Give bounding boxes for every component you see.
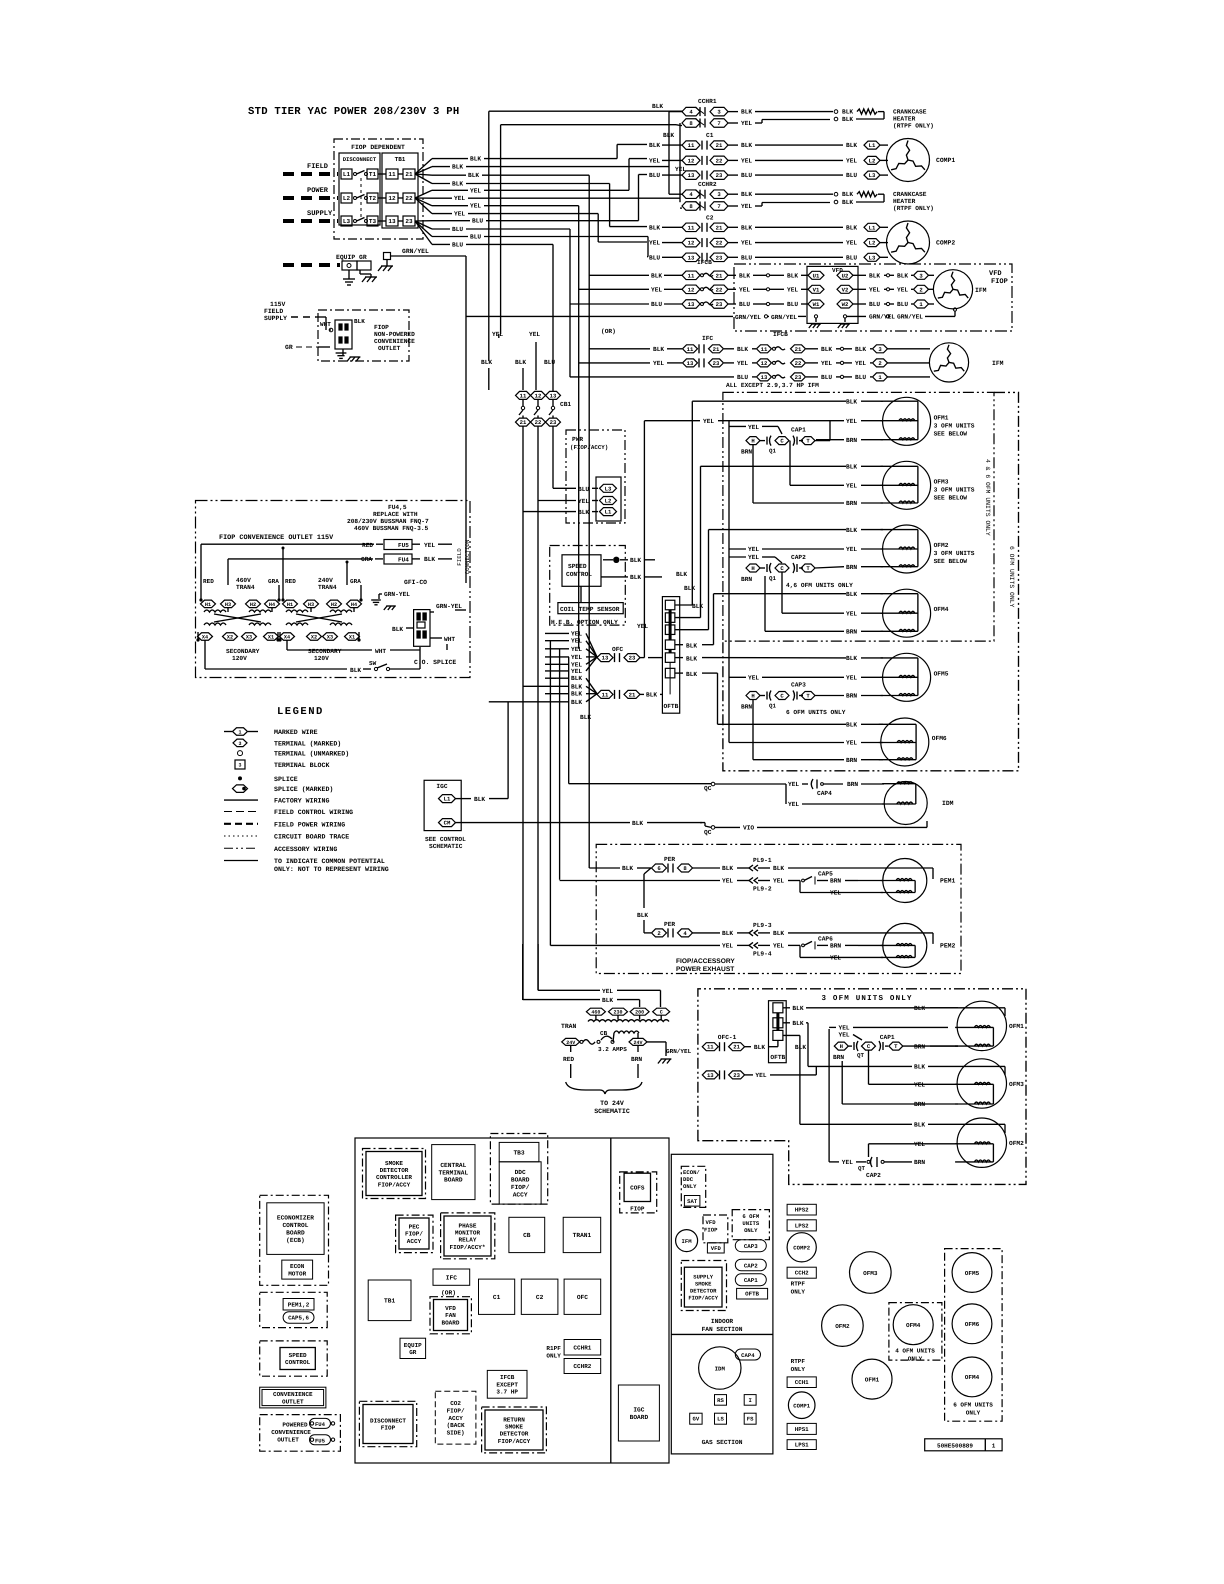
svg-text:YEL: YEL bbox=[846, 240, 857, 247]
svg-text:1: 1 bbox=[238, 730, 241, 736]
terminal strip OFTB 2 bbox=[769, 1001, 787, 1063]
svg-text:FIOP/ACCY: FIOP/ACCY bbox=[378, 1181, 411, 1188]
svg-text:BLU: BLU bbox=[544, 359, 555, 366]
svg-text:21: 21 bbox=[733, 1044, 740, 1051]
svg-text:YEL: YEL bbox=[529, 331, 540, 338]
svg-text:21: 21 bbox=[716, 272, 723, 279]
svg-text:QT: QT bbox=[857, 1052, 864, 1059]
svg-text:BLK: BLK bbox=[676, 571, 687, 578]
svg-text:SEE BELOW: SEE BELOW bbox=[934, 558, 968, 565]
TB1 terminals 12-22 bbox=[386, 193, 398, 203]
terminal QC 2 bbox=[711, 826, 715, 830]
svg-text:COMP2: COMP2 bbox=[793, 1245, 810, 1252]
terminal block TB3 bbox=[499, 1142, 539, 1161]
svg-text:SEE CONTROL: SEE CONTROL bbox=[425, 836, 466, 843]
svg-text:YEL: YEL bbox=[571, 638, 582, 645]
CAP2 oval layout bbox=[735, 1259, 766, 1271]
FS box bbox=[744, 1413, 756, 1424]
svg-text:PL9-2: PL9-2 bbox=[753, 886, 772, 893]
svg-text:FIOP/: FIOP/ bbox=[511, 1184, 530, 1191]
svg-text:(RTPF ONLY): (RTPF ONLY) bbox=[893, 205, 934, 212]
svg-text:IFCB: IFCB bbox=[773, 331, 788, 338]
svg-text:ONLY: ONLY bbox=[546, 1353, 561, 1360]
svg-text:ONLY: ONLY bbox=[744, 1227, 758, 1234]
svg-text:BLK: BLK bbox=[795, 1044, 806, 1051]
svg-text:1: 1 bbox=[878, 374, 882, 381]
svg-text:FIOP/ACCY*: FIOP/ACCY* bbox=[449, 1244, 485, 1251]
svg-text:BLK: BLK bbox=[354, 318, 365, 325]
svg-text:GR: GR bbox=[409, 1349, 417, 1356]
4 and 6 OFM units accessory box bbox=[723, 392, 994, 641]
svg-text:C1: C1 bbox=[706, 132, 714, 139]
wire BLK to TRAN bbox=[522, 944, 524, 1000]
economizer control board box bbox=[260, 1195, 329, 1285]
svg-text:GFI-CO: GFI-CO bbox=[404, 579, 427, 586]
svg-text:CCH1: CCH1 bbox=[795, 1379, 809, 1386]
svg-text:460V: 460V bbox=[236, 577, 251, 584]
svg-text:13: 13 bbox=[687, 360, 694, 367]
svg-text:QC: QC bbox=[704, 829, 712, 836]
svg-text:H.E.B. OPTION ONLY: H.E.B. OPTION ONLY bbox=[551, 619, 618, 626]
svg-text:IFM: IFM bbox=[992, 360, 1004, 367]
svg-text:FS: FS bbox=[747, 1416, 754, 1423]
svg-text:L2: L2 bbox=[343, 195, 351, 202]
svg-text:12: 12 bbox=[535, 392, 542, 399]
svg-text:YEL: YEL bbox=[741, 203, 752, 210]
svg-text:H4: H4 bbox=[351, 602, 357, 608]
svg-text:23: 23 bbox=[550, 419, 557, 426]
svg-text:12: 12 bbox=[761, 360, 768, 367]
svg-text:YEL: YEL bbox=[739, 286, 750, 293]
legend TERMINAL (UNMARKED) bbox=[238, 751, 243, 756]
svg-text:H3: H3 bbox=[308, 602, 314, 608]
drawing number block bbox=[925, 1439, 1002, 1451]
svg-text:BLU: BLU bbox=[897, 301, 908, 308]
svg-text:CONTROL: CONTROL bbox=[566, 571, 592, 578]
svg-text:ONLY: ONLY bbox=[791, 1288, 806, 1295]
svg-text:CENTRAL: CENTRAL bbox=[440, 1162, 466, 1169]
svg-text:T: T bbox=[806, 565, 810, 572]
svg-text:13: 13 bbox=[688, 254, 695, 261]
svg-text:OUTLET: OUTLET bbox=[277, 1436, 299, 1443]
svg-text:BLK: BLK bbox=[652, 103, 663, 110]
svg-text:BRN: BRN bbox=[847, 781, 858, 788]
CAP5,6 oval bbox=[283, 1312, 314, 1324]
svg-text:OFM4: OFM4 bbox=[906, 1322, 921, 1329]
wire BLK OFM6 bbox=[718, 723, 847, 725]
svg-text:BLK: BLK bbox=[842, 109, 853, 116]
wire C2 feed BLU bbox=[647, 256, 648, 258]
transformer TRAN primary terminals bbox=[586, 1008, 605, 1015]
svg-text:ECON: ECON bbox=[290, 1263, 305, 1270]
wire YEL bus inside OFM box bbox=[728, 421, 730, 743]
fan motor OFM3 (3ofm) bbox=[957, 1059, 1006, 1108]
svg-text:BLK: BLK bbox=[470, 156, 481, 163]
svg-text:YEL: YEL bbox=[649, 157, 660, 164]
svg-text:21: 21 bbox=[520, 419, 527, 426]
OFM4b circle layout bbox=[952, 1357, 992, 1397]
svg-text:GRN/YEL: GRN/YEL bbox=[771, 314, 797, 321]
svg-text:SMOKE: SMOKE bbox=[385, 1160, 403, 1167]
svg-text:T1: T1 bbox=[369, 171, 377, 178]
wire GRA riser bbox=[227, 559, 229, 585]
svg-text:Q1: Q1 bbox=[769, 703, 776, 710]
HPS2 box bbox=[787, 1204, 816, 1215]
svg-text:BLU: BLU bbox=[651, 301, 662, 308]
breaker IFCB fan pole 13-23 bbox=[757, 373, 772, 381]
svg-text:23: 23 bbox=[629, 655, 636, 662]
svg-text:OFC: OFC bbox=[612, 646, 623, 653]
svg-text:FIOP/ACCY: FIOP/ACCY bbox=[498, 1438, 531, 1445]
svg-text:BLK: BLK bbox=[914, 1005, 925, 1012]
svg-text:V1: V1 bbox=[813, 286, 820, 293]
svg-text:TRAN: TRAN bbox=[561, 1023, 577, 1030]
FIOP non-powered convenience outlet box bbox=[318, 310, 409, 361]
svg-text:7: 7 bbox=[717, 203, 720, 210]
svg-text:BLK: BLK bbox=[686, 642, 697, 649]
svg-text:23: 23 bbox=[716, 301, 723, 308]
svg-text:GAS SECTION: GAS SECTION bbox=[702, 1439, 743, 1446]
svg-text:CB: CB bbox=[523, 1232, 531, 1239]
svg-text:H: H bbox=[751, 693, 754, 700]
svg-text:FIOP/: FIOP/ bbox=[405, 1231, 423, 1238]
svg-text:6: 6 bbox=[657, 865, 661, 872]
svg-text:C: C bbox=[867, 1043, 871, 1050]
svg-text:PHASE: PHASE bbox=[458, 1222, 476, 1229]
PWR terminal box bbox=[596, 477, 621, 521]
wire BLK OFM2 bbox=[709, 529, 847, 531]
svg-text:BLU: BLU bbox=[855, 374, 866, 381]
svg-text:13: 13 bbox=[602, 655, 609, 662]
svg-text:HEATER: HEATER bbox=[893, 198, 916, 205]
svg-text:IDM: IDM bbox=[715, 1366, 726, 1373]
svg-text:FIOP CONVENIENCE OUTLET 115V: FIOP CONVENIENCE OUTLET 115V bbox=[219, 534, 334, 542]
svg-text:SUPPLY: SUPPLY bbox=[307, 210, 333, 218]
svg-text:GRA: GRA bbox=[350, 578, 361, 585]
VFD terminal U2 bbox=[837, 271, 853, 279]
svg-text:BLK: BLK bbox=[622, 865, 633, 872]
svg-text:200: 200 bbox=[635, 1010, 644, 1016]
svg-text:BLK: BLK bbox=[869, 272, 880, 279]
svg-text:C: C bbox=[780, 438, 784, 445]
wire BLK OFM4 bbox=[714, 593, 847, 595]
layout divider bbox=[610, 1138, 612, 1463]
svg-text:RED: RED bbox=[203, 578, 214, 585]
svg-text:22: 22 bbox=[535, 419, 542, 426]
svg-text:YEL: YEL bbox=[788, 781, 799, 788]
wire BLK PEM2 bbox=[693, 932, 721, 934]
svg-text:(FIOP/ACCY): (FIOP/ACCY) bbox=[570, 444, 608, 451]
svg-text:7: 7 bbox=[717, 120, 720, 127]
svg-text:BLK: BLK bbox=[792, 1020, 803, 1027]
svg-text:2: 2 bbox=[919, 286, 923, 293]
VFD FIOP accessory box bbox=[734, 264, 1012, 331]
contactor CCHR1 contact 8-7 bbox=[682, 119, 700, 128]
wire RED riser bbox=[200, 544, 202, 585]
svg-text:13: 13 bbox=[688, 301, 695, 308]
svg-text:FIELD: FIELD bbox=[264, 308, 283, 315]
svg-text:CAP2: CAP2 bbox=[791, 554, 806, 561]
svg-text:CRANKCASE: CRANKCASE bbox=[893, 109, 927, 116]
svg-text:YEL: YEL bbox=[651, 286, 662, 293]
wire GRN/YEL right of VFD bbox=[847, 315, 866, 317]
IFCB except box bbox=[487, 1370, 527, 1398]
svg-text:OFM1: OFM1 bbox=[1009, 1023, 1024, 1030]
svg-text:YEL: YEL bbox=[722, 942, 733, 949]
svg-text:50HE500889: 50HE500889 bbox=[937, 1442, 973, 1449]
disconnect pole L3-T3 bbox=[341, 216, 352, 226]
svg-text:RELAY: RELAY bbox=[458, 1237, 476, 1244]
svg-text:OFM1: OFM1 bbox=[865, 1377, 880, 1384]
svg-text:13: 13 bbox=[707, 1072, 714, 1079]
wire YEL fan 7 bbox=[415, 198, 432, 206]
svg-text:(BACK: (BACK bbox=[447, 1422, 465, 1429]
TB1 terminals 11-21 bbox=[386, 169, 398, 179]
IDM circle layout bbox=[699, 1347, 741, 1389]
svg-text:GRA: GRA bbox=[268, 578, 279, 585]
svg-text:CB1: CB1 bbox=[560, 401, 571, 408]
svg-text:BRN: BRN bbox=[833, 1054, 844, 1061]
wires OFM2 3ofm bbox=[828, 1029, 830, 1162]
capacitor CAP3 bbox=[746, 692, 760, 700]
svg-text:Q1: Q1 bbox=[769, 575, 776, 582]
svg-text:BLK: BLK bbox=[846, 224, 857, 231]
legend FIELD CONTROL WIRING bbox=[224, 811, 258, 813]
svg-text:13: 13 bbox=[688, 172, 695, 179]
svg-text:PL9-4: PL9-4 bbox=[753, 950, 772, 957]
svg-text:CONVENIENCE: CONVENIENCE bbox=[273, 1391, 313, 1398]
svg-text:YEL: YEL bbox=[855, 360, 866, 367]
svg-text:H: H bbox=[751, 438, 754, 445]
svg-text:BLU: BLU bbox=[869, 301, 880, 308]
svg-text:BLU: BLU bbox=[452, 226, 463, 233]
wire YEL PEM1 bbox=[560, 880, 720, 882]
svg-text:BLK: BLK bbox=[571, 699, 582, 706]
svg-text:R1PF: R1PF bbox=[546, 1345, 561, 1352]
svg-text:8: 8 bbox=[689, 203, 693, 210]
svg-text:CONNECTION: CONNECTION bbox=[464, 539, 471, 574]
svg-text:IFCB: IFCB bbox=[697, 259, 712, 266]
svg-text:SPLICE (MARKED): SPLICE (MARKED) bbox=[274, 786, 333, 793]
VFD terminal W1 bbox=[808, 300, 824, 308]
econ motor box bbox=[282, 1260, 313, 1279]
compressor motor COMP1 bbox=[887, 139, 930, 182]
svg-text:SPEED: SPEED bbox=[568, 563, 587, 570]
svg-text:YEL: YEL bbox=[571, 646, 582, 653]
VFD FIOP layout box bbox=[703, 1215, 728, 1243]
legend CIRCUIT BOARD TRACE bbox=[224, 835, 258, 837]
svg-text:YEL: YEL bbox=[454, 195, 465, 202]
wire BLK PEM1 bbox=[693, 867, 721, 869]
svg-text:23: 23 bbox=[716, 254, 723, 261]
wire YEL OFC right bbox=[648, 657, 662, 659]
svg-text:SCHEMATIC: SCHEMATIC bbox=[429, 843, 463, 850]
C2 box bbox=[521, 1279, 558, 1314]
svg-text:C: C bbox=[780, 565, 784, 572]
svg-text:BLK: BLK bbox=[842, 116, 853, 123]
wire OFM5 BLK direct bbox=[675, 657, 683, 659]
svg-text:L1: L1 bbox=[869, 224, 876, 231]
svg-text:6 OFM UNITS ONLY: 6 OFM UNITS ONLY bbox=[1008, 546, 1015, 608]
svg-text:BLK: BLK bbox=[452, 181, 463, 188]
svg-text:QT: QT bbox=[858, 1165, 865, 1172]
VFD terminal V1 bbox=[808, 285, 824, 293]
svg-text:21: 21 bbox=[405, 171, 413, 178]
terminal strip OFTB bbox=[662, 597, 679, 714]
svg-text:OUTLET: OUTLET bbox=[378, 345, 401, 352]
svg-text:2: 2 bbox=[878, 360, 882, 367]
svg-text:(OR): (OR) bbox=[601, 328, 616, 335]
svg-text:PER: PER bbox=[664, 921, 675, 928]
wire BLK OFM1 bbox=[692, 400, 846, 402]
svg-text:ACCESSORY WIRING: ACCESSORY WIRING bbox=[274, 846, 337, 853]
field power supply line 4 bbox=[283, 263, 340, 267]
legend SPLICE bbox=[238, 776, 242, 780]
svg-text:BLU: BLU bbox=[787, 301, 798, 308]
wire VIO IDM bbox=[715, 826, 740, 828]
panel divider bbox=[671, 1333, 773, 1335]
IFM circle layout bbox=[676, 1230, 698, 1252]
breaker IFCB fan pole 11-21 bbox=[757, 345, 772, 353]
fuse FU4 layout bbox=[310, 1422, 313, 1425]
equip ground box bbox=[400, 1338, 426, 1358]
svg-text:C: C bbox=[780, 693, 784, 700]
terminal 3 IFM2 bbox=[873, 345, 888, 353]
svg-text:YEL: YEL bbox=[741, 157, 752, 164]
svg-text:BLK: BLK bbox=[846, 142, 857, 149]
svg-text:POWERED: POWERED bbox=[282, 1421, 308, 1428]
svg-text:11: 11 bbox=[520, 392, 527, 399]
wire bus BLK vertical bbox=[668, 112, 670, 195]
speed control layout box bbox=[260, 1341, 328, 1376]
svg-text:LPS2: LPS2 bbox=[795, 1222, 809, 1229]
svg-text:FU5: FU5 bbox=[315, 1437, 326, 1444]
svg-text:YEL: YEL bbox=[821, 360, 832, 367]
svg-text:GRN/YEL: GRN/YEL bbox=[735, 314, 761, 321]
terminal L2 C1 bbox=[864, 156, 880, 164]
svg-text:VFD: VFD bbox=[711, 1245, 722, 1252]
svg-text:230: 230 bbox=[613, 1010, 622, 1016]
svg-text:COFS: COFS bbox=[630, 1184, 645, 1191]
svg-text:DETECTOR: DETECTOR bbox=[380, 1167, 409, 1174]
component layout main panel bbox=[355, 1138, 669, 1463]
wire GRN/YEL bbox=[391, 255, 467, 257]
legend SPLICE (MARKED) bbox=[233, 785, 248, 793]
svg-text:BLK: BLK bbox=[686, 671, 697, 678]
svg-text:YEL: YEL bbox=[846, 610, 857, 617]
svg-text:YEL: YEL bbox=[830, 954, 841, 961]
svg-text:YEL: YEL bbox=[748, 424, 759, 431]
svg-text:EXCEPT: EXCEPT bbox=[496, 1381, 518, 1388]
terminal L1 IGC bbox=[439, 795, 456, 803]
svg-text:BLK: BLK bbox=[578, 509, 589, 516]
svg-text:H1: H1 bbox=[287, 602, 293, 608]
splice dot bbox=[613, 557, 619, 563]
svg-text:21: 21 bbox=[716, 224, 723, 231]
OFC box bbox=[564, 1279, 601, 1314]
wire vertical bus 550 bbox=[549, 641, 551, 946]
svg-text:12: 12 bbox=[388, 195, 396, 202]
svg-text:FU5: FU5 bbox=[398, 542, 409, 549]
legend TO INDICATE COMMON POTENTIAL bbox=[224, 860, 258, 862]
FIOP convenience outlet 115V accessory box bbox=[196, 501, 471, 678]
svg-text:YEL: YEL bbox=[846, 483, 857, 490]
svg-text:BLK: BLK bbox=[692, 603, 703, 610]
svg-text:BLK: BLK bbox=[474, 796, 485, 803]
wires CAP1 to motor bbox=[815, 440, 830, 442]
transformer TRAN secondary coil bbox=[614, 1031, 639, 1033]
svg-text:CCHR2: CCHR2 bbox=[573, 1363, 591, 1370]
VFD terminal U1 bbox=[808, 271, 824, 279]
wire vertical bus 569 bbox=[568, 657, 570, 784]
wire BLK OFTB sq1 to OFM1 bbox=[783, 1007, 790, 1009]
svg-text:YEL: YEL bbox=[830, 890, 841, 897]
wire BLK OFTB sq2 bbox=[783, 1022, 790, 1024]
svg-text:X4: X4 bbox=[202, 635, 208, 641]
svg-text:BLK: BLK bbox=[637, 912, 648, 919]
disconnect linkage bbox=[360, 178, 362, 218]
wire VFD output YEL bbox=[853, 288, 866, 290]
OFM6 circle layout bbox=[952, 1304, 992, 1344]
svg-text:COMP1: COMP1 bbox=[793, 1403, 810, 1410]
terminal L1 C1 bbox=[864, 141, 880, 149]
svg-text:IGC: IGC bbox=[633, 1406, 644, 1413]
svg-text:23: 23 bbox=[405, 218, 413, 225]
PEM1,2 accessory box bbox=[260, 1292, 328, 1327]
svg-text:CAP1: CAP1 bbox=[744, 1277, 758, 1284]
svg-text:4 & 6 OFM UNITS ONLY: 4 & 6 OFM UNITS ONLY bbox=[984, 459, 991, 536]
contactor IFC contact 13-23 bbox=[579, 362, 650, 364]
svg-text:23: 23 bbox=[716, 172, 723, 179]
svg-text:ACCY: ACCY bbox=[448, 1415, 463, 1422]
supply smoke detector box bbox=[681, 1261, 726, 1311]
svg-text:FIOP/ACCY: FIOP/ACCY bbox=[688, 1295, 718, 1302]
svg-text:CONVENIENCE: CONVENIENCE bbox=[374, 338, 415, 345]
svg-text:CAP1: CAP1 bbox=[880, 1034, 895, 1041]
svg-text:UNITS: UNITS bbox=[742, 1220, 759, 1227]
svg-text:YEL: YEL bbox=[846, 418, 857, 425]
svg-text:BRN: BRN bbox=[846, 500, 857, 507]
plug PL9-3 bbox=[749, 930, 753, 936]
wire RED TRAN bbox=[570, 1045, 572, 1052]
CAP3 oval layout bbox=[735, 1240, 766, 1252]
wires OFM3 3ofm bbox=[868, 1050, 870, 1084]
svg-text:BLK: BLK bbox=[897, 272, 908, 279]
brace TO 24V bbox=[566, 1082, 642, 1094]
svg-text:(OR): (OR) bbox=[441, 1290, 456, 1297]
svg-text:YEL: YEL bbox=[578, 498, 589, 505]
wire BRN TRAN bbox=[637, 1045, 639, 1052]
svg-text:BLK: BLK bbox=[649, 142, 660, 149]
svg-text:OFTB: OFTB bbox=[770, 1054, 785, 1061]
IGC board box layout bbox=[618, 1385, 659, 1441]
svg-text:BLK: BLK bbox=[468, 172, 479, 179]
I box bbox=[744, 1395, 756, 1406]
svg-text:BRN: BRN bbox=[846, 437, 857, 444]
compressor motor COMP2 bbox=[887, 221, 930, 264]
LPS1 box bbox=[787, 1440, 816, 1450]
svg-text:BOARD: BOARD bbox=[441, 1319, 459, 1326]
capacitor CAP4 bbox=[811, 779, 813, 789]
svg-text:YEL: YEL bbox=[571, 654, 582, 661]
6 OFM units outer accessory box bbox=[723, 392, 1019, 770]
svg-text:11: 11 bbox=[688, 272, 695, 279]
svg-text:CRANKCASE: CRANKCASE bbox=[893, 191, 927, 198]
svg-text:(RTPF ONLY): (RTPF ONLY) bbox=[893, 123, 934, 130]
svg-text:TERMINAL (MARKED): TERMINAL (MARKED) bbox=[274, 740, 341, 747]
powered convenience outlet box bbox=[260, 1415, 341, 1452]
svg-text:FIELD POWER WIRING: FIELD POWER WIRING bbox=[274, 821, 345, 828]
